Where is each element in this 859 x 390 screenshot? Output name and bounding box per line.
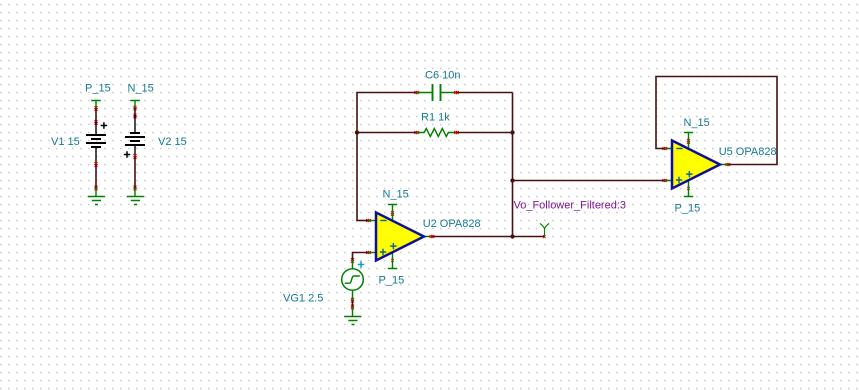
wire — [512, 93, 514, 237]
ground — [344, 307, 361, 325]
wire — [513, 179, 668, 182]
svg-text:P_15: P_15 — [85, 83, 111, 95]
wire — [656, 77, 777, 167]
svg-text:P_15: P_15 — [379, 275, 405, 287]
svg-text:N_15: N_15 — [684, 117, 710, 129]
op-amp U2 — [376, 213, 424, 261]
wire — [133, 106, 136, 118]
generator VG1 — [342, 260, 364, 309]
svg-text:V1 15: V1 15 — [51, 136, 80, 148]
op-amp U5 pins — [665, 149, 728, 181]
svg-text:V2 15: V2 15 — [158, 136, 187, 148]
wire — [454, 91, 512, 94]
wire — [357, 131, 419, 134]
op-amp U5 — [672, 141, 720, 189]
node Vo_Follower_Filtered:3 pin marker — [540, 224, 549, 237]
wire — [133, 154, 136, 190]
op-amp U5 power plus — [686, 171, 692, 177]
terminal P_15 — [684, 180, 693, 197]
battery V2 — [124, 115, 145, 158]
svg-text:C6 10n: C6 10n — [425, 70, 460, 82]
wire — [513, 235, 546, 238]
svg-text:R1 1k: R1 1k — [421, 112, 450, 124]
wire — [454, 131, 512, 134]
junction — [510, 234, 514, 238]
terminal N_15 — [130, 101, 140, 108]
svg-text:Vo_Follower_Filtered:3: Vo_Follower_Filtered:3 — [514, 200, 627, 212]
wire — [356, 219, 371, 222]
svg-text:U5 OPA828: U5 OPA828 — [719, 146, 777, 158]
op-amp U5 minus — [676, 148, 682, 150]
op-amp U2 power plus — [390, 243, 396, 249]
generator VG1 plus — [358, 261, 364, 267]
svg-text:U2 OPA828: U2 OPA828 — [423, 218, 481, 230]
terminal P_15 — [91, 101, 101, 108]
wire — [94, 162, 97, 190]
junction — [510, 130, 514, 134]
op-amp U2 minus — [380, 220, 386, 222]
op-amp U5 plus — [676, 177, 682, 183]
svg-text:N_15: N_15 — [128, 83, 154, 95]
ground — [127, 188, 144, 205]
battery V1 — [86, 122, 107, 164]
terminal N_15 — [684, 133, 693, 149]
wire — [351, 251, 371, 263]
capacitor C6 — [416, 84, 456, 101]
svg-text:N_15: N_15 — [383, 189, 409, 201]
wire — [94, 106, 97, 125]
junction — [355, 130, 359, 134]
svg-text:P_15: P_15 — [675, 203, 701, 215]
wire — [430, 235, 513, 238]
terminal N_15 — [388, 205, 397, 221]
op-amp U2 pins — [368, 221, 431, 253]
op-amp U2 plus — [380, 249, 386, 255]
ground — [88, 188, 105, 205]
wire — [357, 91, 419, 221]
junction — [510, 178, 514, 182]
resistor R1 — [416, 129, 456, 137]
terminal P_15 — [388, 252, 397, 269]
svg-text:VG1 2.5: VG1 2.5 — [283, 293, 323, 305]
